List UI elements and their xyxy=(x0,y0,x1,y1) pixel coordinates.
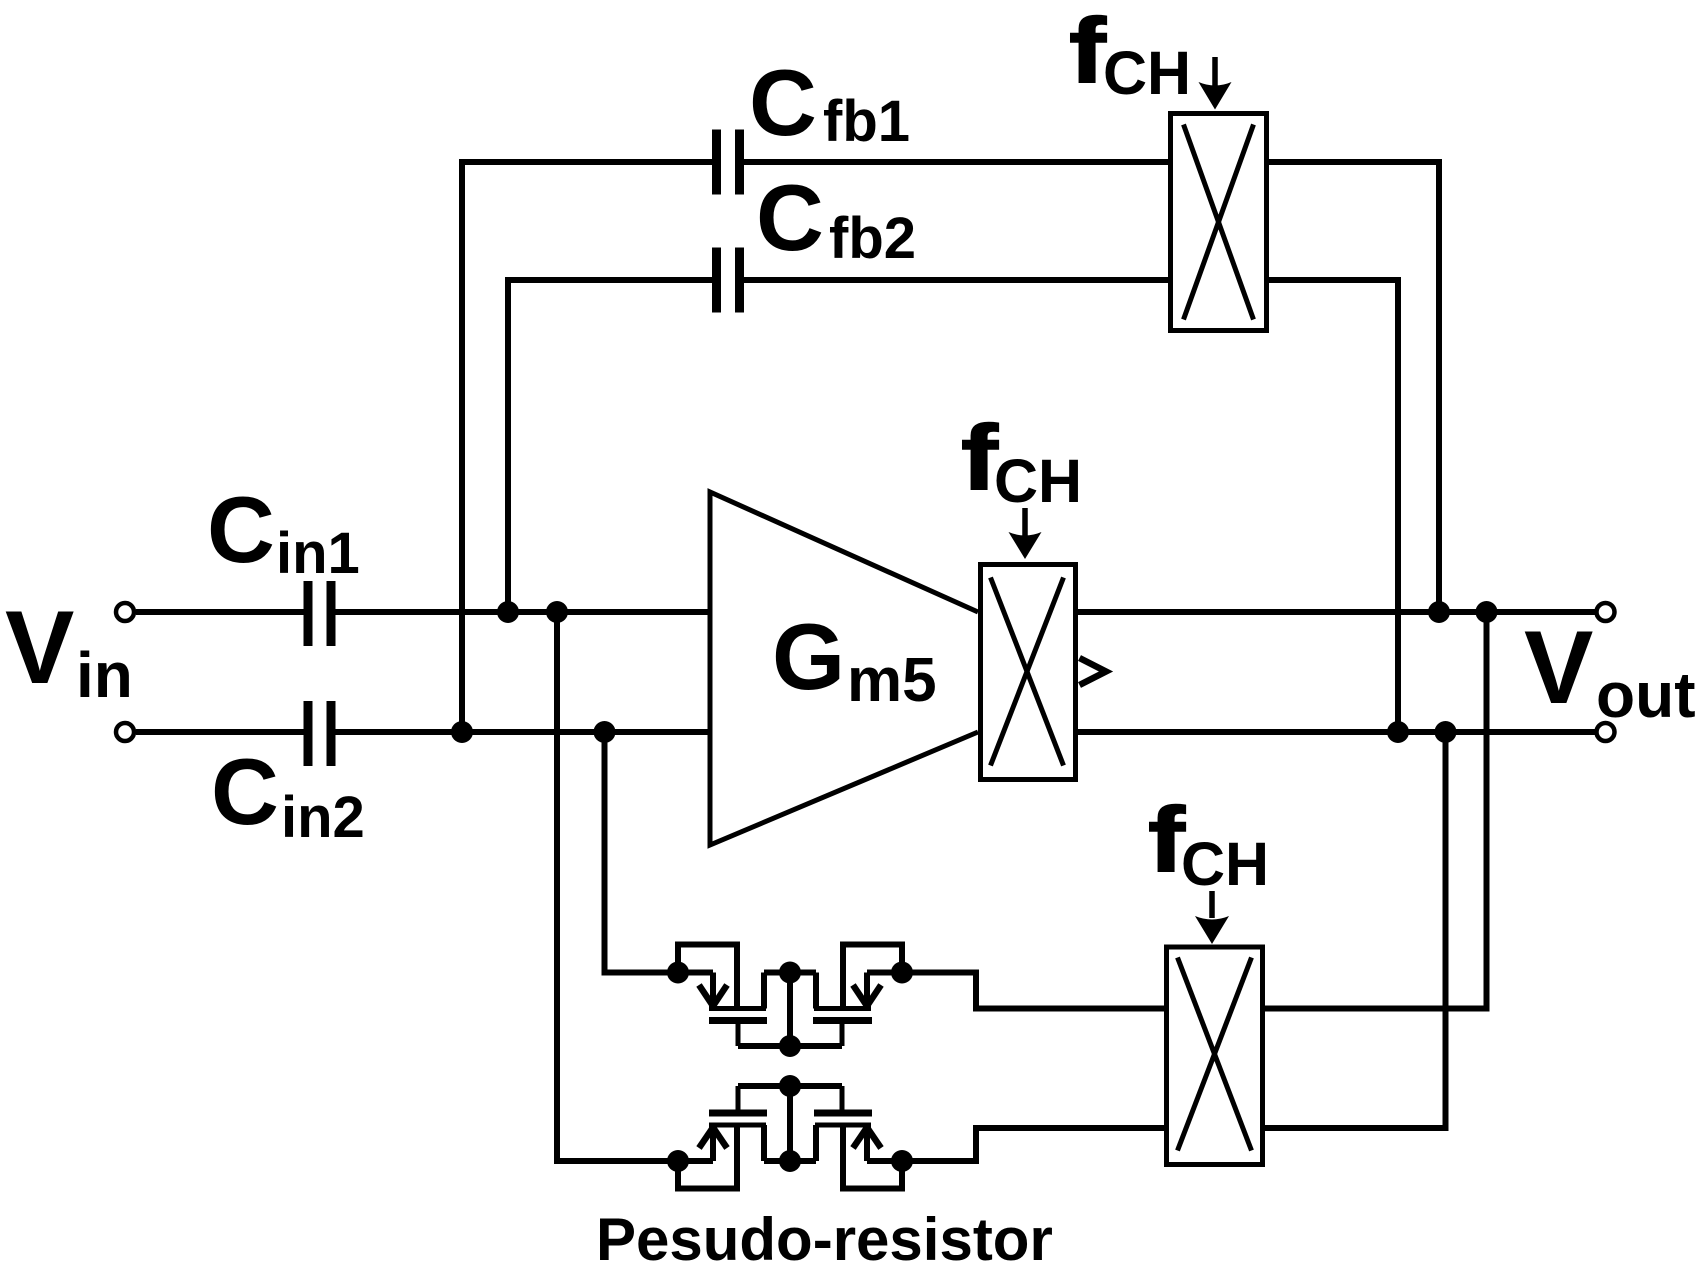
wire Cfb2 right: cap to chopper CH1 xyxy=(742,277,1170,283)
svg-text:Pesudo-resistor: Pesudo-resistor xyxy=(596,1206,1053,1273)
svg-text:out: out xyxy=(1596,659,1696,731)
wire Vout- rail xyxy=(1078,729,1595,735)
drain bridge row1 xyxy=(764,970,816,976)
input terminal Vin+ xyxy=(116,603,134,621)
fCH arrow (middle) xyxy=(1009,508,1042,559)
svg-text:V: V xyxy=(5,590,74,706)
svg-text:f: f xyxy=(1148,789,1185,891)
transistor M4 (row2 right) xyxy=(814,1086,902,1189)
amplifier Gm5 xyxy=(710,492,978,845)
svg-text:C: C xyxy=(207,477,275,582)
svg-text:f: f xyxy=(1069,0,1106,102)
svg-text:m5: m5 xyxy=(847,646,937,715)
svg-text:CH: CH xyxy=(1103,39,1191,107)
wire node A down to pseudo-resistor row2 xyxy=(557,612,713,1161)
chopper U1 (top, fCH) xyxy=(1171,114,1267,331)
svg-text:in2: in2 xyxy=(281,785,365,850)
svg-text:C: C xyxy=(756,165,824,270)
svg-text:fb2: fb2 xyxy=(829,206,916,271)
capacitor Cfb1 xyxy=(717,130,740,195)
wire Vout+ rail xyxy=(1078,609,1595,615)
capacitor Cin1 xyxy=(308,581,331,646)
output terminal Vout+ xyxy=(1597,603,1615,621)
drain bridge row2 xyxy=(764,1158,816,1164)
pseudo-resistor row2 wire right jog to chopper U3 xyxy=(867,1128,1166,1161)
wire Cin2 to Gm5 xyxy=(334,729,710,735)
row2 center vertical and gate run xyxy=(787,1086,793,1161)
output terminal Vout- xyxy=(1597,723,1615,741)
wire Vin- to Cin2 xyxy=(136,729,305,735)
wire Cfb2 left: corner x508 down to top rail xyxy=(508,280,714,612)
capacitor Cin2 xyxy=(308,701,331,766)
fCH arrow (bottom) xyxy=(1195,891,1229,944)
pseudo-resistor row1 wire right jog to chopper U3 xyxy=(867,973,1166,1009)
output chevron of U2 xyxy=(1080,658,1107,685)
transistor M2 (row1 right) xyxy=(813,945,902,1047)
svg-text:C: C xyxy=(749,50,817,155)
capacitor Cfb2 xyxy=(717,248,740,313)
svg-text:V: V xyxy=(1524,610,1593,726)
fCH arrow (top) xyxy=(1199,57,1232,110)
wire CH1 top output to top rail xyxy=(1267,162,1439,612)
svg-text:in1: in1 xyxy=(276,521,360,586)
wire Vin+ to Cin1 xyxy=(136,609,305,615)
row1 center vertical and gate run xyxy=(787,973,793,1047)
svg-text:fb1: fb1 xyxy=(823,89,910,154)
svg-text:f: f xyxy=(961,407,998,509)
wire Cfb1 left: corner x462 down to bottom rail xyxy=(462,162,714,732)
wire node B down to pseudo-resistor row1 xyxy=(605,732,714,973)
chopper U2 (middle, fCH) xyxy=(981,565,1076,780)
wire CH1 bottom output to bottom rail xyxy=(1267,280,1398,732)
svg-text:G: G xyxy=(772,604,845,709)
wire Cfb1 right: cap to chopper CH1 xyxy=(742,159,1170,165)
svg-text:in: in xyxy=(76,639,133,711)
chopper U3 (bottom, fCH) xyxy=(1167,947,1263,1165)
wire U3 right-bottom up to Vout- xyxy=(1263,732,1446,1128)
transistor M3 (row2 left) xyxy=(678,1086,767,1189)
transistor M1 (row1 left) xyxy=(678,945,767,1047)
input terminal Vin- xyxy=(116,723,134,741)
wire Cin1 to Gm5 xyxy=(334,609,710,615)
wire U3 right-top up to Vout+ xyxy=(1263,612,1487,1009)
svg-text:C: C xyxy=(211,739,279,844)
svg-text:CH: CH xyxy=(1181,830,1269,898)
svg-text:CH: CH xyxy=(994,447,1082,515)
